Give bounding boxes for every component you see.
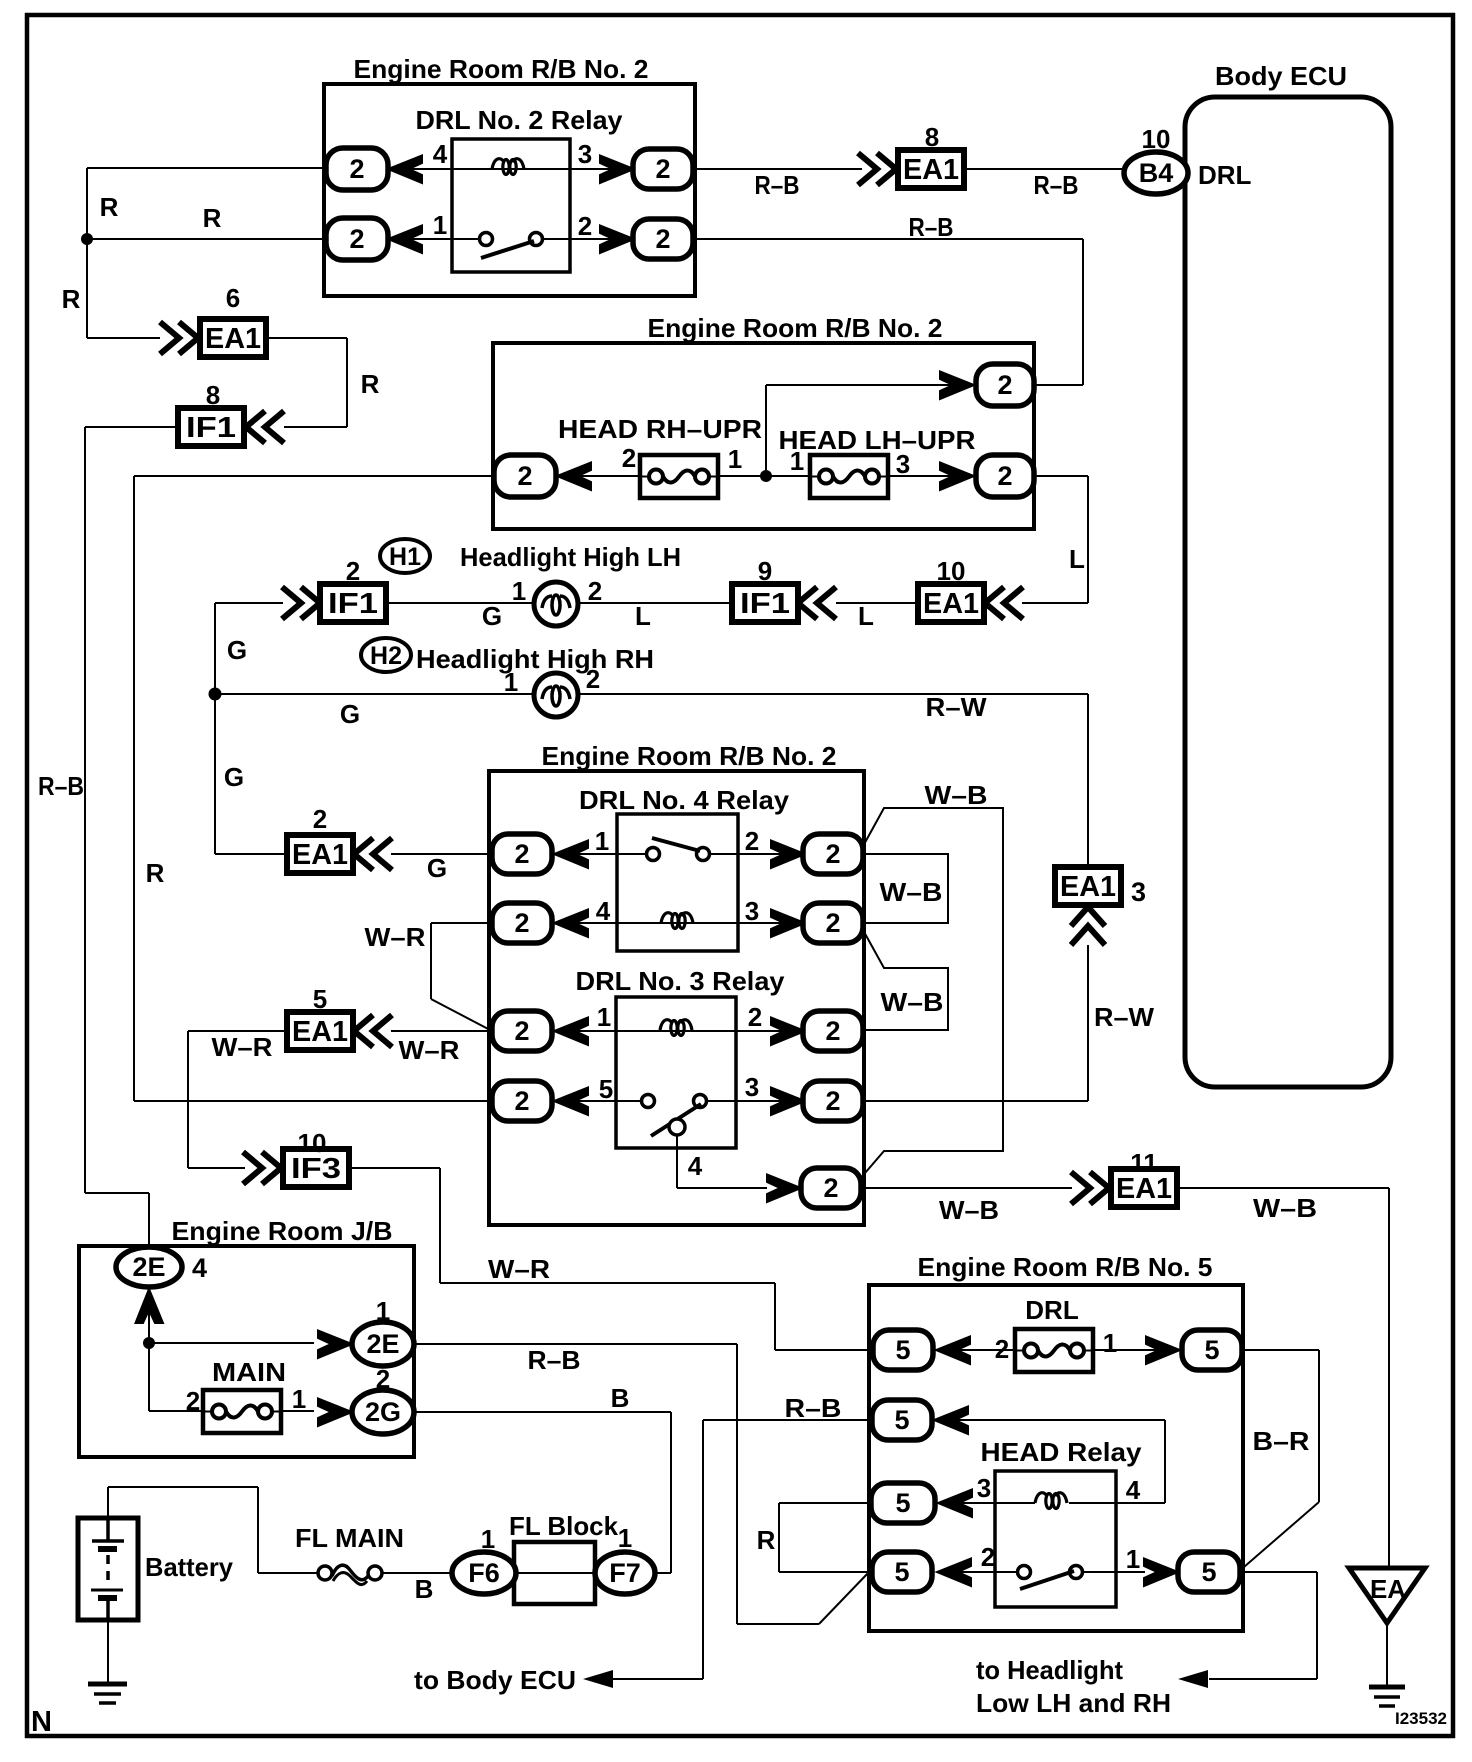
svg-text:EA1: EA1 <box>292 1016 348 1048</box>
svg-text:1: 1 <box>481 1524 495 1554</box>
svg-text:R–B: R–B <box>1034 170 1079 200</box>
svg-text:FL MAIN: FL MAIN <box>295 1523 404 1553</box>
svg-text:2: 2 <box>349 224 364 254</box>
svg-text:2G: 2G <box>365 1397 401 1427</box>
svg-text:R–B: R–B <box>755 170 800 200</box>
svg-text:2: 2 <box>825 839 840 869</box>
svg-text:W–B: W–B <box>880 877 943 907</box>
svg-text:2: 2 <box>745 826 759 856</box>
svg-text:2: 2 <box>313 804 327 834</box>
svg-text:R–B: R–B <box>528 1345 581 1375</box>
svg-text:1: 1 <box>433 210 447 240</box>
svg-text:2: 2 <box>825 1086 840 1116</box>
svg-text:3: 3 <box>1131 877 1146 907</box>
svg-text:4: 4 <box>688 1151 703 1181</box>
svg-text:4: 4 <box>1126 1475 1141 1505</box>
svg-text:L: L <box>1069 544 1085 574</box>
svg-text:2: 2 <box>997 461 1012 491</box>
svg-text:R: R <box>100 192 119 222</box>
svg-text:5: 5 <box>599 1074 613 1104</box>
svg-text:2: 2 <box>995 1334 1009 1364</box>
svg-text:2: 2 <box>997 370 1012 400</box>
svg-text:W–R: W–R <box>399 1035 460 1065</box>
svg-text:3: 3 <box>578 139 592 169</box>
svg-text:8: 8 <box>206 380 220 410</box>
svg-text:Engine Room R/B No. 2: Engine Room R/B No. 2 <box>648 313 943 343</box>
svg-text:1: 1 <box>512 576 526 606</box>
svg-text:2: 2 <box>346 556 360 586</box>
svg-text:HEAD RH–UPR: HEAD RH–UPR <box>558 414 762 444</box>
svg-text:5: 5 <box>895 1488 910 1518</box>
svg-text:11: 11 <box>1130 1148 1158 1178</box>
svg-text:EA1: EA1 <box>923 588 979 620</box>
svg-text:DRL: DRL <box>1198 160 1252 190</box>
svg-text:to Headlight: to Headlight <box>976 1655 1123 1685</box>
svg-text:5: 5 <box>1204 1335 1219 1365</box>
svg-text:Engine Room J/B: Engine Room J/B <box>172 1216 393 1246</box>
svg-text:9: 9 <box>758 556 772 586</box>
svg-text:G: G <box>227 635 247 665</box>
svg-text:3: 3 <box>896 449 910 479</box>
svg-text:W–B: W–B <box>925 780 988 810</box>
svg-text:G: G <box>482 601 502 631</box>
svg-text:4: 4 <box>433 139 448 169</box>
svg-text:I23532: I23532 <box>1395 1709 1447 1728</box>
svg-text:HEAD Relay: HEAD Relay <box>981 1437 1143 1467</box>
svg-text:Battery: Battery <box>145 1552 234 1582</box>
svg-text:FL Block: FL Block <box>509 1511 619 1541</box>
svg-text:EA1: EA1 <box>205 323 261 355</box>
svg-text:10: 10 <box>298 1128 327 1158</box>
svg-text:R–W: R–W <box>1094 1002 1154 1032</box>
svg-text:1: 1 <box>376 1296 390 1326</box>
svg-text:EA1: EA1 <box>292 839 348 871</box>
svg-text:HEAD LH–UPR: HEAD LH–UPR <box>779 425 976 455</box>
svg-text:EA1: EA1 <box>1060 871 1116 903</box>
svg-text:EA1: EA1 <box>903 154 959 186</box>
svg-text:DRL No. 2 Relay: DRL No. 2 Relay <box>416 105 624 135</box>
svg-text:H1: H1 <box>389 543 421 571</box>
svg-text:Low LH and RH: Low LH and RH <box>976 1688 1171 1718</box>
svg-text:F6: F6 <box>468 1558 500 1588</box>
svg-text:1: 1 <box>618 1523 632 1553</box>
svg-text:2E: 2E <box>366 1329 399 1359</box>
svg-text:2: 2 <box>748 1002 762 1032</box>
svg-text:Headlight High RH: Headlight High RH <box>416 644 654 674</box>
svg-text:8: 8 <box>925 122 939 152</box>
svg-text:R–B: R–B <box>38 771 84 801</box>
svg-text:R: R <box>757 1525 776 1555</box>
svg-text:1: 1 <box>595 826 609 856</box>
svg-text:2: 2 <box>186 1386 200 1416</box>
svg-text:N: N <box>31 1706 52 1738</box>
svg-text:2: 2 <box>622 443 636 473</box>
svg-text:H2: H2 <box>370 642 402 670</box>
svg-text:2: 2 <box>349 154 364 184</box>
svg-text:3: 3 <box>745 1072 759 1102</box>
svg-text:3: 3 <box>745 896 759 926</box>
svg-text:R–W: R–W <box>926 692 987 722</box>
svg-text:Engine Room R/B No. 5: Engine Room R/B No. 5 <box>918 1252 1213 1282</box>
svg-text:1: 1 <box>728 444 742 474</box>
svg-text:L: L <box>635 601 651 631</box>
svg-text:3: 3 <box>977 1473 991 1503</box>
svg-text:B: B <box>415 1574 434 1604</box>
svg-text:B–R: B–R <box>1253 1426 1310 1456</box>
svg-text:5: 5 <box>895 1335 910 1365</box>
svg-text:W–R: W–R <box>212 1032 273 1062</box>
svg-text:W–B: W–B <box>881 987 944 1017</box>
svg-text:1: 1 <box>597 1002 611 1032</box>
svg-text:2E: 2E <box>132 1252 165 1282</box>
svg-text:G: G <box>224 762 244 792</box>
svg-text:2: 2 <box>514 1016 529 1046</box>
svg-text:G: G <box>340 699 360 729</box>
svg-text:B4: B4 <box>1139 158 1174 188</box>
svg-text:IF1: IF1 <box>186 412 236 444</box>
svg-text:R: R <box>146 858 165 888</box>
svg-text:1: 1 <box>1103 1328 1117 1358</box>
svg-text:5: 5 <box>1201 1557 1216 1587</box>
svg-text:1: 1 <box>790 446 804 476</box>
svg-text:R: R <box>203 203 222 233</box>
svg-text:R: R <box>62 284 81 314</box>
svg-text:Engine Room R/B No. 2: Engine Room R/B No. 2 <box>354 54 649 84</box>
svg-text:Engine Room R/B No. 2: Engine Room R/B No. 2 <box>542 741 837 771</box>
svg-text:Body ECU: Body ECU <box>1215 61 1347 91</box>
svg-text:R–B: R–B <box>785 1393 842 1423</box>
svg-text:2: 2 <box>586 664 600 694</box>
svg-text:IF1: IF1 <box>740 588 790 620</box>
svg-text:B: B <box>611 1383 630 1413</box>
svg-text:2: 2 <box>514 908 529 938</box>
svg-text:1: 1 <box>1126 1544 1140 1574</box>
svg-text:5: 5 <box>313 984 327 1014</box>
svg-text:2: 2 <box>655 224 670 254</box>
svg-text:2: 2 <box>655 154 670 184</box>
svg-text:10: 10 <box>937 556 966 586</box>
svg-text:R–B: R–B <box>909 212 954 242</box>
svg-text:2: 2 <box>514 1086 529 1116</box>
svg-text:4: 4 <box>192 1253 207 1283</box>
svg-text:DRL No. 3 Relay: DRL No. 3 Relay <box>576 966 786 996</box>
svg-text:W–R: W–R <box>488 1254 550 1284</box>
svg-text:2: 2 <box>376 1364 390 1394</box>
svg-text:W–R: W–R <box>365 922 426 952</box>
svg-text:L: L <box>858 601 874 631</box>
svg-text:2: 2 <box>578 211 592 241</box>
svg-text:W–B: W–B <box>1253 1193 1317 1223</box>
svg-text:G: G <box>427 853 447 883</box>
svg-text:5: 5 <box>894 1405 909 1435</box>
svg-text:DRL No. 4 Relay: DRL No. 4 Relay <box>579 785 790 815</box>
svg-text:2: 2 <box>514 839 529 869</box>
svg-text:F7: F7 <box>609 1558 641 1588</box>
svg-text:1: 1 <box>504 667 518 697</box>
svg-text:to Body ECU: to Body ECU <box>414 1665 576 1695</box>
svg-text:R: R <box>361 369 380 399</box>
svg-text:2: 2 <box>981 1542 995 1572</box>
svg-text:2: 2 <box>825 908 840 938</box>
svg-text:IF1: IF1 <box>328 588 378 620</box>
svg-text:Headlight High LH: Headlight High LH <box>460 542 681 572</box>
svg-text:2: 2 <box>823 1173 838 1203</box>
svg-text:10: 10 <box>1142 124 1171 154</box>
svg-text:EA: EA <box>1370 1574 1406 1604</box>
svg-text:6: 6 <box>226 283 240 313</box>
svg-text:5: 5 <box>894 1557 909 1587</box>
svg-text:DRL: DRL <box>1025 1295 1079 1325</box>
svg-text:W–B: W–B <box>939 1195 999 1225</box>
svg-text:MAIN: MAIN <box>212 1357 286 1387</box>
svg-text:2: 2 <box>825 1016 840 1046</box>
svg-text:1: 1 <box>292 1384 306 1414</box>
svg-text:2: 2 <box>588 576 602 606</box>
svg-text:2: 2 <box>517 461 532 491</box>
svg-text:4: 4 <box>596 896 611 926</box>
